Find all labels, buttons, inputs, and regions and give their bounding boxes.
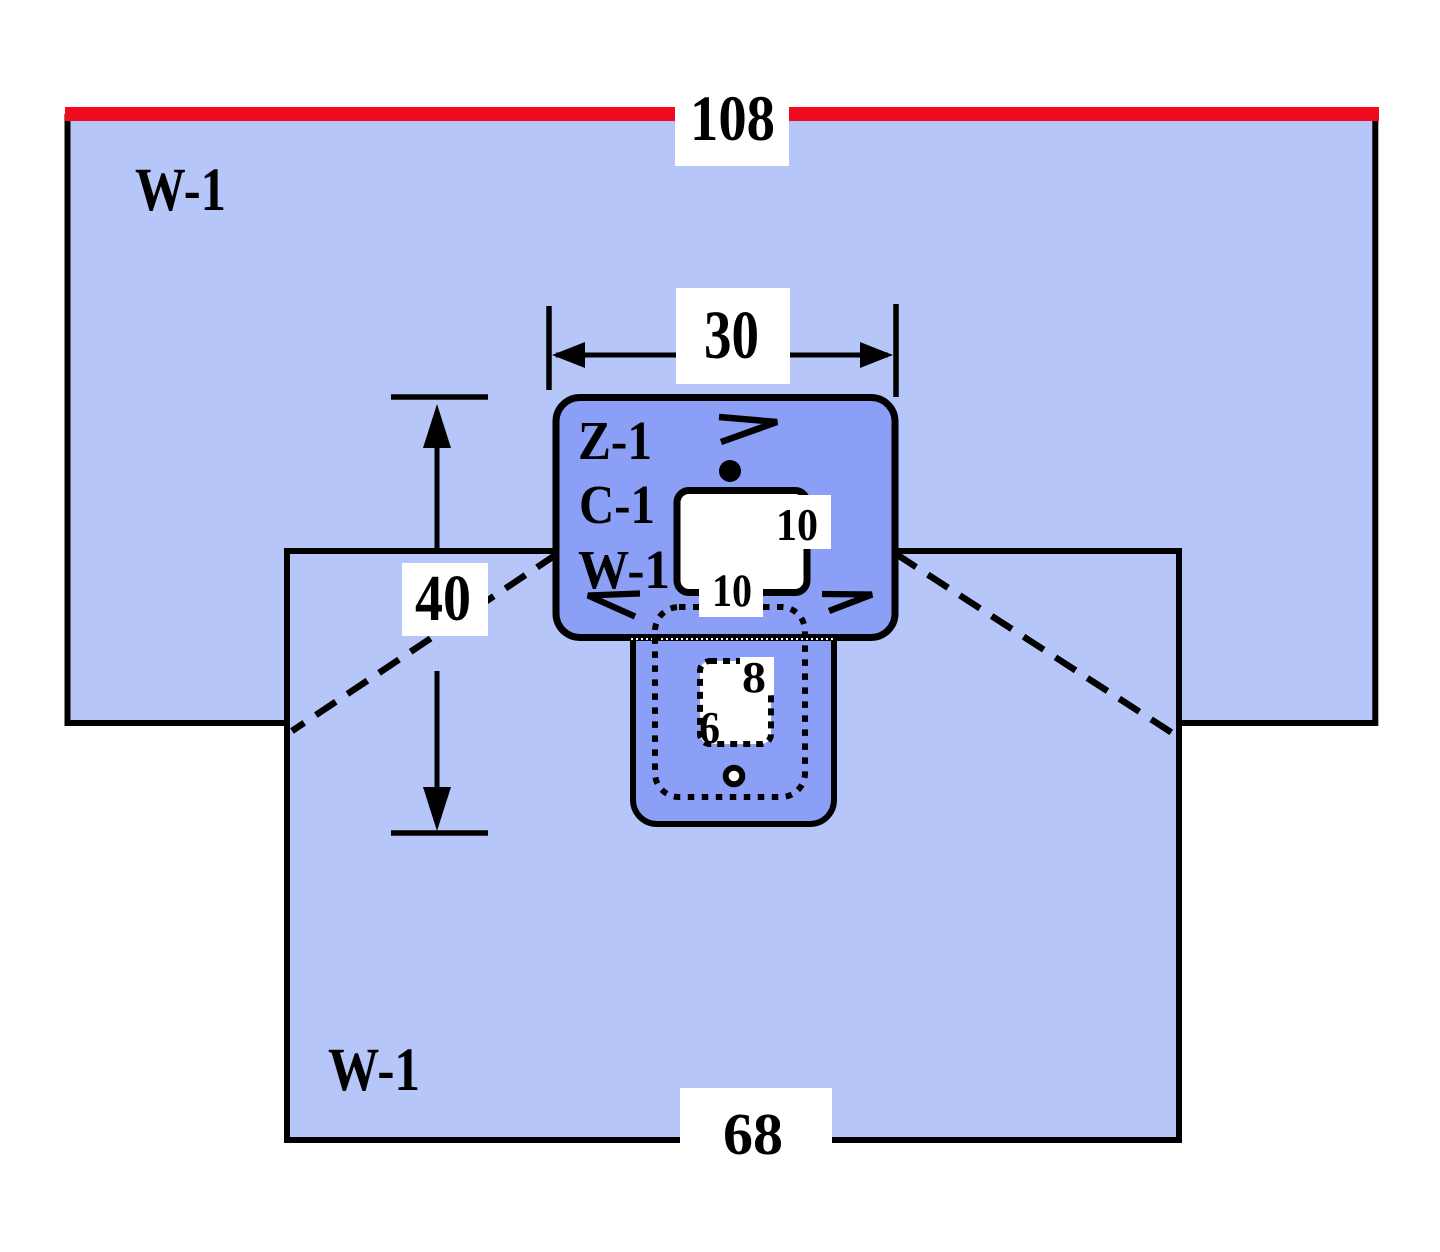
dotted incise film outline (655, 607, 805, 797)
label 8 white patch (740, 657, 774, 695)
dimension 30: right arrowhead (860, 342, 893, 368)
dashed fold line right (896, 554, 1180, 738)
dimension 40: lower arrow line (435, 671, 440, 805)
dimension 30: left tick (546, 306, 552, 390)
svg-text:40: 40 (415, 562, 471, 635)
label 40 box (402, 563, 488, 636)
dimension 40: upper arrowhead (423, 404, 451, 448)
lower drape sheet W-1 (bottom rectangle) (287, 551, 1179, 1140)
adhesive flap below fenestration panel (633, 603, 834, 824)
dimension 40: upper arrow line (435, 430, 440, 550)
small dotted white pouch rectangle (700, 661, 771, 744)
dimension 30: left arrow line (556, 353, 676, 358)
chevron arrow bottom-right (822, 594, 872, 611)
top drape sheet W-1 (large rectangle) fill (65, 112, 1378, 726)
label 30 box (676, 288, 790, 384)
dashed fold line left (292, 554, 557, 731)
svg-text:W-1: W-1 (328, 1037, 420, 1104)
svg-text:W-1: W-1 (578, 539, 670, 600)
svg-text:68: 68 (723, 1101, 783, 1167)
dimension 30: right arrow line (789, 353, 888, 358)
dimension 40: top tick (391, 394, 488, 400)
label 10 right box (770, 495, 831, 549)
svg-text:10: 10 (776, 499, 818, 550)
perforation line at panel/flap junction (631, 638, 836, 640)
svg-text:30: 30 (704, 297, 759, 373)
svg-text:C-1: C-1 (579, 474, 655, 535)
black locator dot (719, 460, 741, 482)
label 68 box (680, 1088, 832, 1150)
dimension 30: left arrowhead (552, 342, 585, 368)
top drape sheet border (left, bottom, right) (68, 114, 1376, 723)
chevron arrow top (719, 417, 777, 442)
svg-text:6: 6 (699, 702, 720, 753)
svg-text:8: 8 (742, 653, 766, 702)
red edge strip at top (65, 107, 1379, 121)
label 108 box (675, 95, 789, 166)
svg-text:108: 108 (690, 83, 775, 155)
svg-text:W-1: W-1 (135, 157, 226, 224)
fenestration (white opening) (677, 491, 807, 593)
label 10 bottom box (699, 568, 763, 617)
grommet circle (726, 768, 743, 785)
chevron arrow bottom-left (588, 594, 640, 617)
dimension 30: right tick (893, 304, 899, 397)
dimension 40: lower arrowhead (423, 787, 451, 831)
svg-text:10: 10 (712, 565, 752, 617)
fenestration reinforcement panel (Z-1 C-1 W-1) (556, 398, 895, 638)
svg-text:Z-1: Z-1 (578, 410, 652, 471)
dimension 40: bottom tick (391, 830, 488, 836)
